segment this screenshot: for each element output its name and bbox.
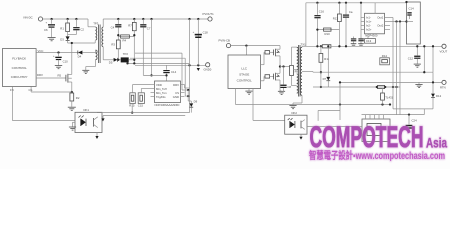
TL431 network U7 xyxy=(376,85,394,104)
optocoupler DK1 xyxy=(75,108,102,132)
node C4-R4 xyxy=(117,34,119,36)
svg-text:D3: D3 xyxy=(60,37,64,41)
wire U2 pin2 to B2 xyxy=(141,89,150,93)
resistor R12 xyxy=(333,3,342,48)
capacitor C24 xyxy=(406,113,417,133)
wire zener row y90 xyxy=(182,89,189,91)
capacitor C16 xyxy=(314,3,324,48)
wire rail y114 extension xyxy=(390,114,424,116)
transformer TP3 xyxy=(86,19,103,70)
SCHEMATIC-RIGHT xyxy=(219,1,448,142)
ground GND-C12 xyxy=(414,64,421,67)
LLC controller U5 box xyxy=(228,55,261,89)
svg-text:GND0: GND0 xyxy=(204,68,212,72)
svg-text:C16: C16 xyxy=(319,9,325,13)
svg-text:LLC: LLC xyxy=(241,67,247,71)
node half-bridge mid xyxy=(279,65,281,67)
svg-text:D9: D9 xyxy=(194,100,198,104)
svg-text:R2: R2 xyxy=(76,96,80,100)
node TP2-out xyxy=(133,59,135,61)
svg-text:CONTROL: CONTROL xyxy=(237,79,252,83)
wire top rail U3 xyxy=(306,2,407,47)
SCHEMATIC-LEFT xyxy=(2,12,214,139)
svg-text:C8: C8 xyxy=(287,85,291,89)
capacitor C18 xyxy=(193,19,209,65)
svg-text:C6: C6 xyxy=(44,28,48,32)
wire snubber tie xyxy=(68,34,77,36)
resistor R9 series xyxy=(290,47,299,86)
svg-text:C4: C4 xyxy=(111,25,115,29)
wire DK1 emitter arrow xyxy=(95,133,98,140)
flyback controller U1 box xyxy=(2,49,36,92)
connector J-RTN xyxy=(440,80,446,89)
ground GND-DK1 xyxy=(69,122,76,130)
svg-text:STAGE: STAGE xyxy=(239,73,249,77)
wire fb rail y87 xyxy=(313,86,400,88)
svg-text:NCP4306AAAZZZD: NCP4306AAAZZZD xyxy=(155,103,180,107)
wire rail y109 xyxy=(393,108,433,110)
node rail-C4 xyxy=(117,18,119,20)
node rail-C18 xyxy=(197,18,199,20)
node VCC-C10 xyxy=(57,51,59,53)
diode D3 xyxy=(60,35,69,44)
zener D10 xyxy=(323,45,331,87)
capacitor C6 xyxy=(44,19,55,37)
logo halo xyxy=(309,121,447,162)
node rail-x189 xyxy=(188,18,190,20)
ground arrow C18 xyxy=(197,68,200,71)
ground GND-C6 xyxy=(48,38,56,41)
svg-text:R10: R10 xyxy=(325,32,331,36)
resistor R1 xyxy=(60,19,69,35)
capacitor C12 xyxy=(408,45,421,64)
svg-text:RTN: RTN xyxy=(440,85,446,89)
svg-text:COMPOTECH: COMPOTECH xyxy=(310,121,424,154)
svg-text:TL431: TL431 xyxy=(385,95,393,99)
svg-text:TP2: TP2 xyxy=(123,52,129,56)
resistor R11 xyxy=(319,46,330,88)
svg-text:CONTROL: CONTROL xyxy=(12,66,27,70)
svg-text:FLYBACK: FLYBACK xyxy=(12,56,27,60)
svg-text:R13: R13 xyxy=(333,16,339,20)
resistor R8 gate-low xyxy=(261,75,270,81)
zener D9 xyxy=(188,90,197,113)
svg-text:DRV: DRV xyxy=(173,83,179,87)
transistor Q1 xyxy=(36,73,72,92)
capacitor C9 xyxy=(343,3,353,48)
svg-text:DRV: DRV xyxy=(37,73,43,77)
ground GND-C10 xyxy=(55,66,62,69)
capacitor C14 xyxy=(163,65,176,81)
svg-text:CIRCUITRY: CIRCUITRY xyxy=(11,75,28,79)
svg-text:R4: R4 xyxy=(123,39,127,43)
wire out rail rtn xyxy=(340,81,442,83)
wire CS net xyxy=(31,86,72,92)
wire vert x424 xyxy=(423,45,425,73)
wire llc vcc rail xyxy=(231,45,280,47)
component block U6 xyxy=(405,1,420,44)
svg-text:C18: C18 xyxy=(203,30,209,34)
node D5-R3 xyxy=(117,59,119,61)
node R7-R4 xyxy=(133,34,135,36)
wire DK2 emitter arrow xyxy=(299,134,302,139)
transformer TX1 xyxy=(292,42,314,105)
svg-text:R5: R5 xyxy=(58,74,62,78)
resistor R3 xyxy=(111,37,120,60)
wire llc pin2 down xyxy=(253,89,285,121)
wire fb rail y58 xyxy=(130,58,185,96)
svg-text:PVIN-CB: PVIN-CB xyxy=(219,38,230,42)
node input-C6 xyxy=(50,18,52,20)
wire U2 right pins xyxy=(185,85,190,89)
capacitor C8 resonant xyxy=(280,85,291,92)
wire vout rail xyxy=(302,45,322,47)
capacitor C4 xyxy=(111,19,122,37)
IC U3 NCP4300 xyxy=(361,3,407,38)
svg-text:C14: C14 xyxy=(171,70,177,74)
svg-text:C13: C13 xyxy=(366,39,372,43)
wire vert x424 low xyxy=(423,109,425,115)
svg-text:TP3: TP3 xyxy=(93,22,99,26)
ground GND-llc xyxy=(245,89,252,95)
resistor R14 xyxy=(380,54,390,65)
svg-text:GND: GND xyxy=(173,95,179,99)
component block B1 xyxy=(129,93,135,108)
capacitor C11 xyxy=(351,37,357,46)
capacitor C2 xyxy=(73,19,84,35)
wire vert x340 xyxy=(339,81,341,120)
svg-text:In2+: In2+ xyxy=(366,28,372,32)
node drain xyxy=(71,42,73,44)
transistor Q3 xyxy=(270,67,280,92)
ground GND-aux xyxy=(82,70,89,73)
svg-text:Out1: Out1 xyxy=(377,16,384,20)
wire bottom rail B xyxy=(103,115,185,117)
zener D12 xyxy=(431,72,441,109)
component block B2 xyxy=(138,93,145,108)
wire mid net xyxy=(280,65,290,84)
svg-text:C14: C14 xyxy=(409,7,415,11)
wire drain net xyxy=(68,41,96,74)
node source-CS xyxy=(71,91,73,93)
svg-text:R3: R3 xyxy=(111,42,115,46)
transformer TP2 xyxy=(121,52,135,62)
ground arrow mid xyxy=(101,116,104,122)
svg-text:D5: D5 xyxy=(109,60,113,64)
wire L-net near logo xyxy=(318,111,340,121)
wire secondary top rail xyxy=(103,18,208,20)
svg-text:NCP4300: NCP4300 xyxy=(365,33,378,37)
wire B1 down xyxy=(131,104,133,114)
wire DK2 out xyxy=(307,126,362,128)
node vcc-llc xyxy=(245,44,247,55)
resistor R10 series-out xyxy=(322,45,442,48)
wire vert x361 xyxy=(360,3,362,37)
node rail-C7 xyxy=(142,18,144,20)
ground GND-R2 xyxy=(68,107,76,110)
svg-text:Out2: Out2 xyxy=(377,24,384,28)
resistor R4 xyxy=(118,35,134,43)
svg-text:+: + xyxy=(46,21,48,25)
resistor R7 xyxy=(128,19,136,37)
wire out rail mid xyxy=(313,71,433,73)
ground GND-TX1 xyxy=(289,106,296,109)
svg-text:D12: D12 xyxy=(436,94,442,98)
node input-R1 xyxy=(66,18,68,20)
IC U4 box xyxy=(362,115,391,142)
wire feedback vert x151 xyxy=(143,19,166,77)
svg-text:CS: CS xyxy=(29,88,33,92)
node rail-R7 xyxy=(133,18,135,20)
svg-text:D?: D? xyxy=(323,77,327,81)
wire gnd rail y66 xyxy=(135,64,206,66)
svg-text:D4: D4 xyxy=(78,55,82,59)
svg-text:+: + xyxy=(53,54,55,58)
wire zener row y96 xyxy=(185,95,189,97)
wire bottom rail A xyxy=(97,112,190,114)
svg-text:C2: C2 xyxy=(80,28,84,32)
optocoupler DK2 xyxy=(285,111,307,134)
svg-text:R1: R1 xyxy=(60,26,64,30)
diode D4 xyxy=(78,51,96,59)
node y63-x127 xyxy=(126,62,128,64)
wire fb rail y63 xyxy=(128,62,190,64)
wire feedback vert x143 xyxy=(142,27,144,75)
wire VCC net xyxy=(36,49,78,53)
diode D5 xyxy=(109,58,121,65)
component C13 box xyxy=(365,34,376,43)
svg-text:VIN-DC: VIN-DC xyxy=(23,15,33,19)
wire llc pin1 down xyxy=(236,89,392,106)
svg-text:FB: FB xyxy=(10,88,14,92)
svg-text:R11: R11 xyxy=(324,57,329,61)
node y63-x134 xyxy=(133,62,135,64)
wire fb rail y53 xyxy=(135,53,182,90)
connector J-VINDC xyxy=(23,15,43,21)
wire input rail xyxy=(43,18,88,20)
svg-text:智慧電子設計▪www.compotechasia.com: 智慧電子設計▪www.compotechasia.com xyxy=(309,149,445,162)
ground GND-RTN xyxy=(415,82,422,87)
resistor R10b mid xyxy=(316,28,339,36)
transistor Q2 xyxy=(270,46,280,67)
wire U3 right verticals xyxy=(393,18,400,115)
connector J-PVINCB xyxy=(219,38,231,47)
node y66-x189 xyxy=(188,64,190,66)
svg-text:TX1: TX1 xyxy=(301,42,307,46)
connector J-VOUT xyxy=(440,44,448,53)
svg-text:PVOUT1: PVOUT1 xyxy=(203,12,215,16)
svg-text:C10: C10 xyxy=(63,60,69,64)
IC U2 NCP4306 xyxy=(151,81,185,107)
svg-text:Trig/Dis: Trig/Dis xyxy=(156,95,166,99)
capacitor C12a xyxy=(358,37,364,46)
wire R7 to TP2 xyxy=(133,37,135,64)
svg-text:VOUT: VOUT xyxy=(440,49,448,53)
svg-text:Asia: Asia xyxy=(426,135,447,151)
svg-text:C7: C7 xyxy=(147,26,151,30)
svg-text:Ca: Ca xyxy=(349,10,353,14)
svg-text:R7: R7 xyxy=(128,24,132,28)
node input-C2 xyxy=(75,18,77,20)
wire vert x433 xyxy=(432,45,434,72)
connector J-PVOUT xyxy=(203,12,215,21)
svg-text:DK1: DK1 xyxy=(84,108,90,112)
connector J-GND0 xyxy=(204,63,212,72)
capacitor C7 xyxy=(140,19,151,30)
wire vert x189 xyxy=(189,19,191,113)
svg-text:DK2: DK2 xyxy=(292,111,298,115)
resistor R6 gate-high xyxy=(261,51,270,65)
svg-text:C12: C12 xyxy=(408,56,414,60)
wire U2 pin1 to B1 xyxy=(133,85,151,93)
svg-text:+: + xyxy=(193,30,195,34)
wire FB net xyxy=(12,86,75,120)
capacitor C10 xyxy=(53,53,68,66)
wire secondary bottom xyxy=(103,59,113,61)
resistor R2 xyxy=(70,93,80,107)
node rail-x151 xyxy=(150,18,152,20)
node y66-x198 xyxy=(197,64,199,66)
ground GND-Q3 xyxy=(278,91,285,94)
svg-text:C15: C15 xyxy=(138,103,144,107)
